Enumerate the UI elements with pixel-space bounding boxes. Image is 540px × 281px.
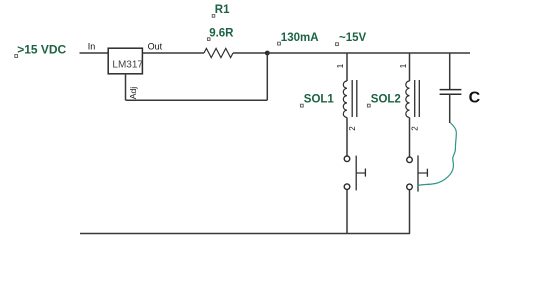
svg-text:Out: Out — [148, 41, 163, 51]
wire Adj pin down — [125, 74, 127, 100]
switch S2 bottom terminal circle — [407, 184, 413, 190]
svg-text:SOL1: SOL1 — [304, 93, 335, 105]
svg-text:~15V: ~15V — [339, 32, 367, 44]
inductor SOL2 coil — [406, 81, 410, 118]
label 130mA — [278, 32, 319, 45]
svg-text:1: 1 — [399, 63, 408, 68]
svg-text:130mA: 130mA — [281, 32, 319, 44]
junction dot output node — [265, 51, 270, 56]
svg-text:2: 2 — [348, 126, 357, 131]
capacitor C top plate — [440, 89, 462, 91]
op-amp U1 LM317 regulator box — [108, 48, 143, 74]
svg-text:1: 1 — [336, 63, 345, 68]
wire capacitor bottom lead — [449, 94, 451, 123]
wire LM317 Out to resistor — [142, 52, 204, 54]
wire SOL1 to switch S1 — [346, 118, 348, 156]
svg-text:>15 VDC: >15 VDC — [17, 43, 66, 57]
switch S1 top terminal circle — [344, 156, 350, 162]
wire feedback bottom horizontal — [126, 99, 268, 101]
wire S2 to bottom rail — [409, 190, 411, 234]
switch S1 contact bar — [355, 156, 357, 191]
capacitor C bottom plate — [440, 93, 462, 95]
wire SOL2 to switch S2 — [409, 118, 411, 157]
label SOL2 — [367, 93, 400, 107]
inductor SOL2 core bars — [415, 80, 420, 117]
resistor R1 zigzag — [204, 48, 233, 57]
wire output node to right end — [267, 52, 470, 54]
svg-text:LM317: LM317 — [112, 60, 143, 71]
wire freehand teal connection cap to S2 — [417, 123, 456, 188]
svg-text:2: 2 — [410, 126, 419, 131]
value label 9.6R — [207, 27, 234, 40]
label SOL1 — [300, 93, 334, 107]
wire top to SOL1 — [346, 53, 348, 81]
svg-text:R1: R1 — [215, 4, 230, 16]
wire input to LM317 In — [80, 52, 109, 54]
wire S1 to bottom rail — [346, 190, 348, 234]
switch S1 actuator — [356, 169, 365, 177]
svg-text:SOL2: SOL2 — [371, 93, 401, 105]
wire bottom rail — [80, 233, 410, 235]
svg-text:Adj: Adj — [128, 87, 138, 100]
wire feedback up to junction — [266, 53, 268, 100]
switch S2 actuator — [418, 169, 427, 177]
wire resistor to junction — [233, 52, 268, 54]
svg-text:In: In — [88, 41, 96, 51]
wire top to capacitor — [449, 53, 451, 89]
switch S2 contact bar — [417, 155, 419, 191]
svg-text:9.6R: 9.6R — [209, 27, 234, 39]
inductor SOL1 coil — [343, 81, 347, 118]
switch S1 bottom terminal circle — [344, 184, 350, 190]
wire top to SOL2 — [409, 53, 411, 81]
switch S2 top terminal circle — [407, 157, 413, 163]
inductor SOL1 core bars — [352, 80, 357, 117]
label R1 — [212, 4, 230, 17]
svg-text:C: C — [469, 89, 481, 106]
node VIN label >15 VDC — [15, 43, 67, 58]
node label ~15V — [336, 32, 367, 46]
